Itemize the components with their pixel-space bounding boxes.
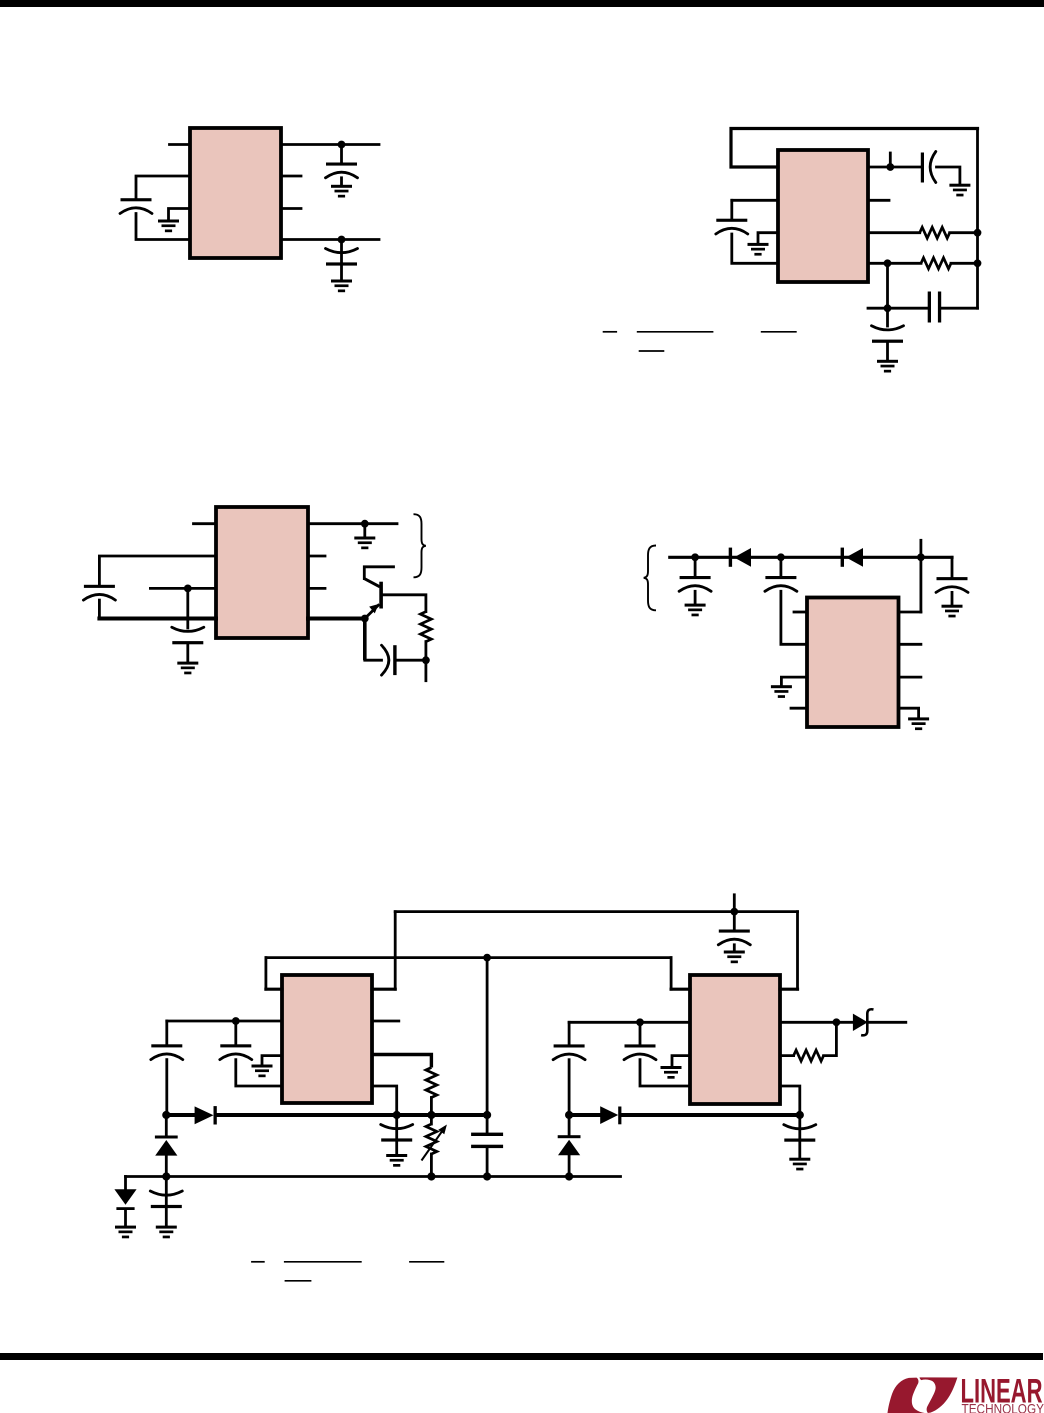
capacitor C6: [872, 326, 904, 343]
ground below C5: [949, 184, 970, 197]
wire U3 pin 2 (left) to C8: [99, 556, 216, 585]
wire node to C2: [340, 145, 343, 163]
wire U2 pin 6 to R1: [868, 231, 920, 234]
wire U6 GND stub: [672, 1056, 690, 1066]
node Q1 emitter junction: [361, 615, 369, 623]
wire lower rail right drop to U6 pin 1: [670, 958, 673, 990]
wire C7 to feedback vertical: [941, 307, 977, 310]
wire U1 pin 1 (left): [170, 143, 191, 146]
capacitor C7 (feedforward, horizontal): [928, 292, 942, 323]
node U6 out junction: [796, 1111, 804, 1119]
wire bottom horizontal to C7: [868, 307, 928, 310]
Linear Technology LT mark: [888, 1372, 1044, 1413]
ground below C18: [386, 1154, 407, 1167]
wire U2 shutdown loop (left+top): [731, 129, 978, 168]
wire C22 to ground: [798, 1142, 801, 1158]
wire U2 pin 5 to R2: [868, 262, 921, 265]
wire U2 pin 7 stub: [868, 199, 889, 202]
wire U3 pin 6 stub: [308, 587, 325, 590]
wire R6 up to zener node: [824, 1022, 837, 1055]
ground below C9: [177, 662, 198, 675]
wire node down through C9: [186, 588, 189, 628]
wire C14 to ground: [733, 945, 736, 951]
wire U1 pin 2 (left) to C1 top: [136, 176, 190, 198]
wire U1 pin 5 (right, output 2): [281, 238, 379, 241]
capacitor C8: [83, 585, 115, 600]
wire center vertical down to C17: [486, 958, 489, 1133]
wire U2 pin 2 (left): [732, 199, 778, 202]
wire U4 pin 7 stub: [899, 643, 921, 646]
wire junction 2 to C12: [780, 557, 783, 576]
capacitor C21: [624, 1044, 656, 1059]
wire upper rail (shutdown bus): [395, 910, 797, 913]
ground U6 GND: [661, 1066, 682, 1079]
wire VOUT1 line (thick): [217, 1113, 487, 1117]
transistor Q1 base bar: [379, 582, 383, 609]
capacitor C12: [765, 576, 797, 591]
wire U5 GND stub: [262, 1056, 282, 1065]
formula fraction bars (bottom equation): [251, 1262, 444, 1281]
diode D5 (pointing down) at rail left end: [124, 1177, 127, 1190]
ground U4 GND: [771, 685, 792, 698]
node R3/C10 junction: [422, 656, 430, 664]
wire U4 pin 5 to ground: [899, 708, 919, 717]
ground U4 pin 5: [908, 717, 929, 730]
wire emitter node down (thick): [363, 619, 367, 661]
wire C11 to ground: [694, 591, 697, 603]
resistor R1: [920, 227, 950, 238]
capacitor C4: [716, 219, 748, 234]
wire U5 pin 5 down to VOUT line: [372, 1086, 397, 1115]
capacitor C9: [172, 627, 204, 644]
node pin5 junction: [884, 259, 892, 267]
ground below D5: [115, 1226, 136, 1239]
wire C9 to ground: [186, 645, 189, 662]
rheostat R5 arrow: [422, 1129, 445, 1161]
wire U5 pin 6 (thick) to R4: [372, 1055, 431, 1068]
wire C15 bottom to VIN node: [165, 1060, 168, 1115]
ground below C2: [331, 185, 352, 198]
wire U1 GND pin stub: [169, 209, 191, 220]
diode D4 (pointing up) below VIN1: [165, 1115, 168, 1136]
diode D7 (pointing up) below VIN2: [568, 1115, 571, 1135]
node pin3 junction: [184, 585, 192, 593]
wire VIN2 to D6 (thick): [569, 1113, 601, 1117]
wire node through C6: [886, 308, 889, 326]
transistor Q1 (PNP) collector wire: [364, 567, 393, 579]
ground U2 GND: [748, 243, 769, 256]
wire U1 pin 8 (right, output): [281, 143, 379, 146]
wire C5 to ground: [937, 167, 960, 184]
wire U5 pin 8 (right top): [372, 988, 395, 991]
wire C19 to ground: [165, 1208, 168, 1226]
ground U5 GND: [252, 1065, 273, 1078]
wire C17 bottom to bottom rail: [486, 1148, 489, 1176]
IC U3: [216, 507, 308, 638]
resistor R4: [426, 1068, 437, 1098]
wire to C15: [165, 1021, 168, 1044]
ground below C11: [685, 604, 706, 617]
wire C12 bottom to U4 pin 2: [781, 591, 807, 644]
wire C20 bottom to VIN2 node: [568, 1060, 571, 1115]
ground below C19: [156, 1226, 177, 1239]
rheostat R5: [430, 1115, 433, 1124]
node center/VOUT junction: [483, 1111, 491, 1119]
ground below C3: [331, 280, 352, 293]
IC U5: [282, 975, 372, 1103]
capacitor C22 (curved top) below U6 out: [798, 1115, 801, 1138]
wire U5 pin 2 (left): [167, 1020, 282, 1023]
wire U6 pin 5 down to VOUT2: [780, 1086, 800, 1115]
wire VIN1 to D3 anode (thick): [166, 1113, 195, 1117]
ground below C22: [789, 1158, 810, 1171]
diode D2 (pointing left): [841, 548, 863, 567]
wire node to C11: [694, 557, 697, 576]
wire R2 to feedback node: [951, 262, 978, 265]
node R2/feedback junction: [974, 259, 982, 267]
wire C1 bottom to U1 pin 4: [136, 214, 190, 240]
wire U3 pin 7 stub: [308, 555, 325, 558]
capacitor C20: [553, 1044, 585, 1059]
capacitor C10 (horizontal, curved+flat): [382, 645, 397, 675]
ground below pin8 node: [354, 537, 375, 550]
wire pin5 node down: [886, 263, 889, 308]
wire D5 to ground: [124, 1210, 127, 1226]
brace right (output group): [414, 514, 426, 577]
node rail junction 3: [917, 553, 925, 561]
brace left (input group): [644, 546, 656, 611]
wire U6 pin 6 to R6: [780, 1054, 794, 1057]
node zener junction: [833, 1018, 841, 1026]
wire bottom rail: [126, 1175, 621, 1178]
resistor R3: [420, 612, 431, 642]
bottom black bar: [0, 1353, 1043, 1360]
capacitor C17 (non-polarized): [471, 1133, 503, 1149]
wire stub up from junction 3: [920, 540, 923, 557]
wire node to C16: [234, 1021, 237, 1044]
wire U2 pin 8 (right top): [868, 166, 921, 169]
IC U4: [807, 598, 899, 728]
wire U4 pin 1 stub: [794, 611, 807, 614]
wire U6 pin 1 (left top): [671, 988, 690, 991]
wire stub up from rail junction: [733, 895, 736, 912]
node R1/feedback junction: [974, 229, 982, 237]
IC U2: [778, 150, 868, 282]
wire U6 pin 8 (right top): [780, 988, 798, 991]
node R4/R5 junction: [427, 1111, 435, 1119]
wire U4 pin 8 (right top): [899, 611, 921, 614]
diode D1 (pointing left): [729, 548, 751, 567]
wire R3 bottom to node: [424, 642, 427, 661]
transistor Q1 collector diagonal: [364, 579, 380, 587]
wire junction to C14: [733, 912, 736, 930]
node VIN1 junction: [162, 1111, 170, 1119]
wire rail right end down to C13: [951, 557, 954, 577]
wire R1 to feedback node: [950, 231, 978, 234]
node U5 out junction: [393, 1111, 401, 1119]
wire C3 to ground: [340, 266, 343, 280]
wire C2 to ground: [340, 178, 343, 185]
wire upper rail right drop to U6 pin 8: [796, 912, 799, 990]
wire feedback right vertical: [976, 129, 979, 309]
wire U1 pin 7 stub: [281, 175, 301, 178]
wire output tail down: [424, 660, 427, 681]
wire C8 bottom to U3 pin 4: [98, 600, 101, 618]
wire U4 GND stub: [781, 677, 807, 685]
ground below C13: [942, 605, 963, 618]
node lower rail junction: [483, 954, 491, 962]
wire lower rail left drop to U5 pin 1: [264, 958, 267, 990]
node rail junction 2: [777, 553, 785, 561]
wire U2 GND pin stub: [758, 233, 778, 243]
node U6 input junction: [636, 1018, 644, 1026]
svg-text:TECHNOLOGY: TECHNOLOGY: [962, 1400, 1044, 1413]
wire C10 right plate to node: [397, 659, 426, 662]
transistor Q1 emitter arrow: [369, 604, 378, 613]
wire U3 pin 4 (left, thick): [99, 617, 216, 621]
transistor Q1 emitter diagonal: [365, 604, 380, 618]
wire C21 bottom to U6 pin 4: [640, 1060, 690, 1086]
node upper rail junction: [730, 908, 738, 916]
wire to C4: [730, 200, 733, 218]
resistor R2: [921, 258, 951, 269]
ground U1 GND pin: [158, 220, 179, 233]
node output 2 junction: [338, 236, 346, 244]
capacitor C11: [679, 576, 711, 591]
top black bar: [0, 0, 1044, 7]
capacitor C18 (curved top) below U5 out node: [395, 1115, 398, 1138]
node bottom rail junctions: [162, 1172, 170, 1180]
capacitor C1: [120, 198, 152, 213]
wire node through C3: [340, 240, 343, 264]
wire node to C21: [639, 1022, 642, 1044]
capacitor C5 (bypass, horizontal): [921, 152, 936, 183]
IC U6: [690, 975, 780, 1104]
wire R4 bottom to VOUT node: [430, 1098, 433, 1116]
wire zener to output: [870, 1021, 906, 1024]
wire lower rail (sense bus): [266, 956, 671, 959]
wire U5 pin 1 (left top): [266, 988, 282, 991]
wire C18 to ground: [395, 1142, 398, 1154]
resistor R6: [794, 1050, 824, 1061]
zener diode D8: [853, 1009, 874, 1035]
wire Q1 base to R3: [383, 595, 426, 612]
node C6/C7 junction: [884, 304, 892, 312]
node output 1 junction: [338, 141, 346, 149]
capacitor C14: [718, 930, 750, 945]
capacitor C3: [326, 249, 358, 266]
capacitor C19 (curved top) below rail: [165, 1177, 168, 1206]
capacitor C13: [936, 577, 968, 592]
wire junction 3 down to U4 pin 8: [920, 557, 923, 612]
wire U3 pin 5 (right, thick) to Q1 emitter: [308, 617, 365, 621]
wire C4 bottom to U2 pin 4: [732, 234, 778, 263]
diode D3 (pointing right): [195, 1106, 217, 1124]
wire stub up from node: [889, 153, 892, 167]
wire U6 pin 2 (left): [569, 1021, 690, 1024]
diode D6 (pointing right): [600, 1106, 621, 1124]
wire U6 pin 7 to zener node: [780, 1021, 853, 1024]
wire C13 to ground: [951, 592, 954, 604]
wire to C20: [568, 1022, 571, 1044]
wire VOUT2 line (thick): [621, 1113, 799, 1117]
formula fraction bars (VOUT equation): [603, 332, 797, 351]
wire C16 bottom to U5 pin 4: [236, 1060, 282, 1086]
ground below C14: [724, 951, 745, 964]
wire U3 pin 1 (left): [194, 522, 217, 525]
wire upper rail left drop to U5 pin 8: [394, 912, 397, 990]
wire U1 pin 6 stub: [281, 207, 301, 210]
capacitor C16: [220, 1044, 252, 1059]
node VIN2 junction: [565, 1111, 573, 1119]
node U5 input junction: [232, 1017, 240, 1025]
node pin8 junction: [886, 163, 894, 171]
capacitor C15: [151, 1044, 183, 1059]
wire to C10 left plate: [365, 659, 382, 662]
node pin8 junction: [361, 520, 369, 528]
wire U3 pin 3 (left): [150, 587, 216, 590]
IC U1: [190, 128, 281, 258]
ground below C6: [877, 360, 898, 373]
wire U5 pin 7 stub: [372, 1020, 399, 1023]
node rail junction 1: [691, 553, 699, 561]
capacitor C2: [326, 163, 358, 178]
wire C6 to ground: [886, 343, 889, 360]
wire U4 pin 6 stub: [899, 676, 921, 679]
wire U4 pin 4 stub: [791, 707, 807, 710]
wire top rail: [670, 556, 952, 559]
wire node to ground: [363, 524, 366, 537]
wire U3 pin 8 (right top): [308, 522, 397, 525]
